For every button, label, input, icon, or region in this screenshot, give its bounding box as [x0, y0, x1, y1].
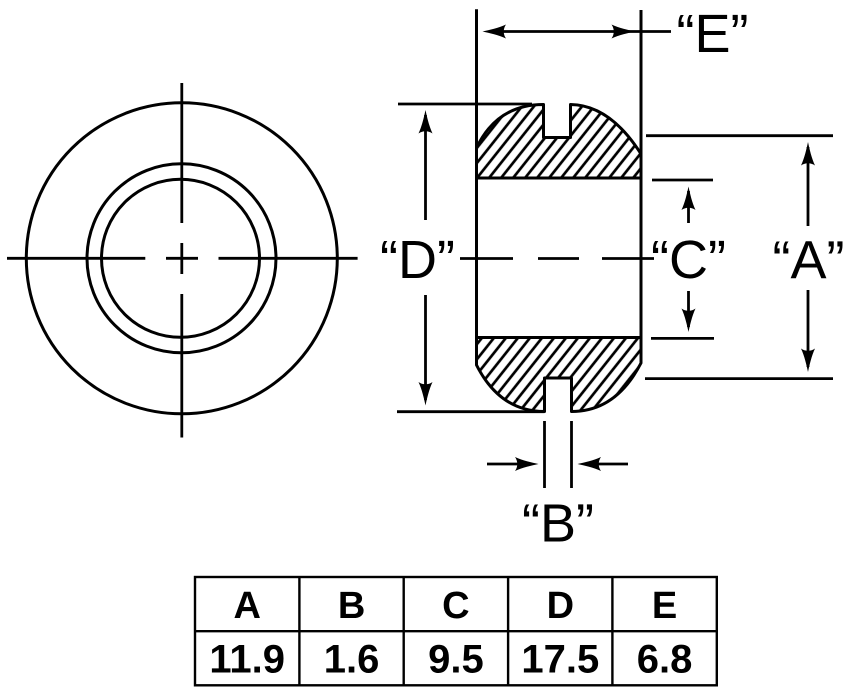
svg-text:9.5: 9.5 [428, 638, 484, 682]
svg-text:E: E [652, 585, 677, 627]
svg-text:6.8: 6.8 [637, 638, 693, 682]
svg-text:D: D [547, 585, 574, 627]
svg-text:“A”: “A” [773, 231, 845, 291]
svg-text:“E”: “E” [677, 4, 749, 64]
svg-text:17.5: 17.5 [521, 638, 599, 682]
svg-text:“C”: “C” [651, 230, 726, 290]
svg-text:1.6: 1.6 [324, 638, 380, 682]
svg-text:“D”: “D” [380, 230, 455, 290]
svg-text:“B”: “B” [522, 494, 594, 554]
svg-text:C: C [442, 585, 469, 627]
svg-text:11.9: 11.9 [209, 638, 285, 682]
svg-text:B: B [338, 585, 365, 627]
svg-text:A: A [233, 585, 260, 627]
